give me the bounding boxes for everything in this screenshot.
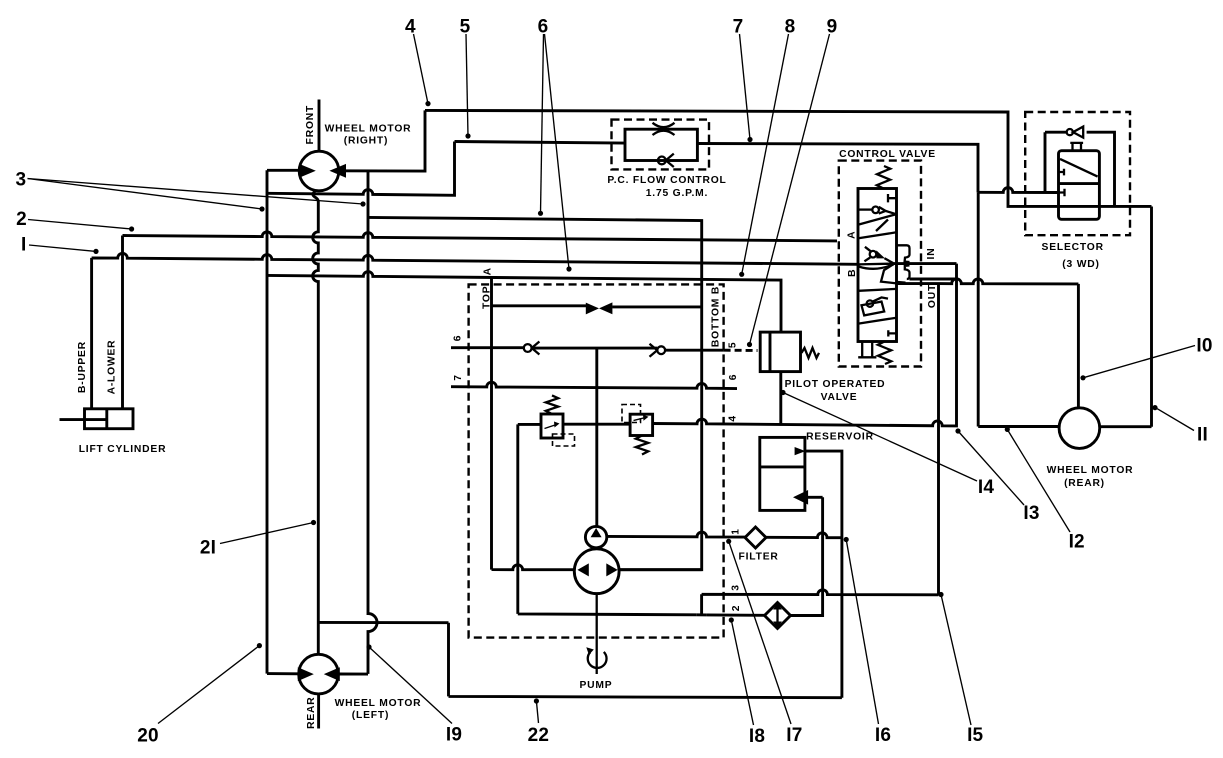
- wire: left motor feed left segment: [267, 672, 299, 675]
- svg-text:I4: I4: [978, 477, 994, 498]
- svg-text:B-UPPER: B-UPPER: [77, 341, 88, 393]
- svg-text:WHEEL MOTOR: WHEEL MOTOR: [335, 698, 422, 709]
- wire: center vertical from line 6 to charge pump: [595, 349, 598, 527]
- wire: right motor equator line left segment: [267, 169, 299, 172]
- p.c. flow control restrictor arcs: [653, 123, 675, 135]
- wire: reservoir upper drain line down to bottom long line: [805, 451, 842, 698]
- svg-text:A: A: [847, 231, 858, 239]
- wire: relief branch vertical and bottom line of pump box: [518, 424, 823, 615]
- svg-text:9: 9: [827, 17, 838, 38]
- svg-text:TOP: TOP: [482, 286, 493, 309]
- filter diamond: [745, 527, 766, 548]
- svg-text:4: 4: [405, 17, 416, 38]
- wire: rear wheel motor line: [978, 425, 1151, 428]
- wire: bottom long case drain line: [449, 623, 842, 698]
- selector top actuator: [1070, 143, 1083, 151]
- relief valve left spring: [546, 395, 558, 414]
- wire: left motor feed right segment: [338, 673, 368, 676]
- svg-text:3: 3: [16, 170, 27, 191]
- reservoir bottom return arrow: [793, 490, 808, 505]
- svg-text:6: 6: [453, 335, 464, 342]
- svg-text:OUT: OUT: [927, 284, 938, 308]
- svg-text:(REAR): (REAR): [1064, 478, 1105, 489]
- relief valve left arrow: [545, 425, 557, 429]
- wire: line 6 inside pump box with check valves: [451, 348, 724, 351]
- svg-text:8: 8: [785, 17, 796, 38]
- selector check valve: [1067, 129, 1073, 135]
- wire: OUT vertical down to line 3: [937, 284, 940, 595]
- svg-text:REAR: REAR: [306, 697, 317, 729]
- svg-text:2: 2: [731, 605, 742, 612]
- wire: OUT line from control valve to rear motor riser with hops: [897, 279, 1079, 284]
- control valve lower divider: [858, 289, 896, 291]
- svg-text:5: 5: [460, 17, 471, 38]
- wire: bus 4 from right trunk to pump box vertical: [368, 217, 702, 569]
- wire: left trunk vertical (front-to-rear line): [266, 170, 269, 673]
- lift cylinder piston: [105, 409, 108, 429]
- relief valve right pilot dashed box: [622, 405, 641, 423]
- pump outward arrows: [577, 563, 588, 576]
- reservoir top outlet arrow: [795, 447, 806, 455]
- svg-text:4: 4: [728, 415, 739, 422]
- control valve out passage slope: [881, 264, 897, 284]
- pump rotation arrow symbol: [588, 652, 607, 668]
- relief valve right arrow: [634, 418, 646, 421]
- wire: x978 vertical down to rear motor line: [977, 192, 980, 426]
- svg-text:I6: I6: [875, 725, 891, 746]
- wheel motor (left) circle: [299, 654, 339, 694]
- wire: line 5 pilot dash-dot segment to pilot operated valve: [724, 349, 758, 352]
- selector diagonal: [1060, 159, 1098, 177]
- svg-text:I0: I0: [1196, 336, 1212, 357]
- pump enclosure dashed box: [469, 284, 724, 637]
- svg-text:3: 3: [731, 584, 742, 591]
- svg-text:A-LOWER: A-LOWER: [107, 340, 118, 395]
- wire: pump drive shaft: [596, 594, 598, 674]
- wheel motor (right) inward arrows: [299, 164, 316, 178]
- svg-text:SELECTOR: SELECTOR: [1042, 242, 1104, 253]
- svg-text:RESERVOIR: RESERVOIR: [806, 432, 874, 443]
- wire: right motor top stub (front axle): [318, 100, 321, 152]
- svg-text:2I: 2I: [200, 538, 216, 559]
- control valve bottom tilted check square: [862, 302, 885, 316]
- charge pump circle: [585, 526, 606, 547]
- svg-text:VALVE: VALVE: [821, 392, 858, 403]
- control valve bottom spring: [878, 342, 891, 365]
- wheel motor (rear) circle: [1059, 408, 1100, 449]
- svg-text:20: 20: [137, 725, 159, 746]
- wire: pilot valve bottom vertical to line 4: [779, 372, 782, 426]
- strainer diamond with two-way arrow: [765, 603, 791, 629]
- svg-text:22: 22: [528, 725, 550, 746]
- svg-text:I3: I3: [1023, 503, 1039, 524]
- svg-text:B: B: [847, 269, 858, 277]
- svg-text:FILTER: FILTER: [739, 552, 779, 563]
- wire: bowtie shutoff line (A port line): [492, 306, 702, 307]
- wire: selector check loop: [1045, 132, 1115, 206]
- bowtie shutoff valve: [586, 303, 599, 315]
- svg-text:A: A: [483, 267, 494, 275]
- svg-text:BOTTOM B: BOTTOM B: [711, 286, 722, 347]
- wire: bus B from lift cylinder to control valve with hops: [92, 253, 859, 409]
- control valve top spring: [877, 166, 890, 189]
- control valve dashed box: [839, 161, 921, 367]
- svg-text:LIFT CYLINDER: LIFT CYLINDER: [79, 444, 167, 455]
- svg-text:I8: I8: [749, 726, 765, 747]
- control valve bottom plunger: [858, 342, 876, 358]
- svg-text:2: 2: [16, 209, 27, 230]
- svg-text:(3 WD): (3 WD): [1062, 259, 1099, 270]
- wire: P.C. flow control line: [455, 142, 979, 193]
- control valve middle section A check and arrow: [870, 251, 877, 258]
- svg-text:(LEFT): (LEFT): [352, 710, 389, 721]
- wire: bus A from lift cylinder to control valve with hops: [123, 232, 838, 409]
- svg-text:I: I: [21, 235, 26, 256]
- svg-text:6: 6: [728, 374, 739, 381]
- p.c. flow control check valve: [658, 157, 666, 165]
- wire: line 4 through relief valves with hops, to IN riser: [518, 264, 957, 426]
- pilot operated valve spring: [802, 348, 820, 358]
- svg-text:7: 7: [733, 17, 744, 38]
- svg-text:7: 7: [453, 374, 464, 381]
- svg-text:I2: I2: [1069, 532, 1085, 553]
- selector dashed box: [1025, 112, 1130, 235]
- wire: reservoir lower port line: [808, 496, 823, 499]
- relief valve left box: [541, 414, 563, 438]
- control valve top section passage diagonals: [858, 214, 896, 238]
- svg-text:FRONT: FRONT: [305, 105, 316, 144]
- wire: charge pump outlet to filter and reservoir drop with hops: [607, 532, 842, 538]
- control valve top T marker: [888, 194, 897, 202]
- svg-text:WHEEL MOTOR: WHEEL MOTOR: [1047, 465, 1134, 476]
- selector divider: [1059, 182, 1100, 185]
- reservoir box: [760, 437, 805, 510]
- check valve on line 6 right: [657, 346, 665, 354]
- relief valve right spring: [636, 436, 648, 455]
- wire: L2 line to selector with hop: [978, 188, 1059, 193]
- p.c. flow control dashed box: [612, 120, 710, 170]
- svg-text:(RIGHT): (RIGHT): [344, 136, 389, 147]
- wire: pump right side line: [619, 568, 701, 571]
- wheel motor (left) inward arrows: [298, 667, 314, 681]
- wire: line 7 with hops over A-vertical and box vertical: [451, 382, 737, 388]
- wire: top bus (line 4) to selector riser: [425, 110, 1152, 206]
- svg-text:PILOT OPERATED: PILOT OPERATED: [785, 379, 886, 390]
- wire: line 3 from pump box to OUT vertical with hop: [702, 590, 939, 615]
- svg-text:I9: I9: [446, 725, 462, 746]
- svg-text:1: 1: [731, 528, 742, 535]
- wire: middle vertical from right wheel motor to left wheel motor (with crossover hops): [313, 190, 319, 654]
- wire: right-edge vertical down to rear wheel motor: [1150, 207, 1153, 427]
- wire: case drain line from middle vertical with trunk hop: [318, 621, 448, 624]
- wire: left motor bottom stub (rear axle): [317, 694, 320, 729]
- svg-text:WHEEL MOTOR: WHEEL MOTOR: [325, 124, 412, 135]
- relief valve left pilot dashed box: [553, 434, 575, 446]
- wire: right motor equator line right segment to riser: [339, 110, 425, 171]
- svg-text:P.C. FLOW CONTROL: P.C. FLOW CONTROL: [607, 175, 726, 186]
- svg-text:1.75 G.P.M.: 1.75 G.P.M.: [646, 188, 708, 199]
- wire: line-3 tee stub on bottom line: [697, 613, 707, 616]
- wire: motor-bottom bus with hop over right trunk: [267, 142, 455, 196]
- pilot operated valve box: [760, 332, 800, 372]
- pump main circle: [574, 549, 619, 594]
- wire: IN channel lines from control valve tab: [894, 264, 957, 279]
- selector internal port markers: [1059, 169, 1065, 197]
- wire: A-line vertical inside pump box to pump left: [492, 278, 575, 569]
- check valve on line 6 left: [524, 344, 532, 352]
- p.c. flow control body rect: [625, 129, 697, 160]
- relief valve right box: [630, 414, 653, 435]
- selector body: [1059, 151, 1100, 220]
- control valve bottom passage diagonal: [858, 318, 896, 324]
- control valve spool tab lower: [897, 265, 910, 282]
- lift cylinder body: [85, 409, 134, 429]
- wire: rear motor top riser from OUT line: [1077, 284, 1080, 408]
- lift cylinder rod: [60, 418, 107, 421]
- control valve spool tab upper: [897, 245, 910, 262]
- charge pump up arrow: [591, 528, 602, 537]
- control valve body: [858, 189, 897, 342]
- svg-text:I7: I7: [786, 725, 802, 746]
- wheel motor (right) circle: [299, 151, 339, 191]
- wire: bottom bus from left trunk to pilot valve riser: [267, 272, 781, 333]
- svg-text:I5: I5: [967, 725, 983, 746]
- control valve bottom T marker: [888, 330, 896, 336]
- svg-text:CONTROL VALVE: CONTROL VALVE: [839, 149, 936, 160]
- svg-text:PUMP: PUMP: [580, 680, 613, 691]
- control valve top section check valve: [859, 208, 872, 210]
- svg-text:5: 5: [728, 342, 739, 349]
- wire: right trunk vertical (with hop over case-drain line): [368, 171, 377, 674]
- svg-text:IN: IN: [926, 248, 937, 260]
- control valve B leaf passage: [859, 264, 895, 269]
- svg-text:II: II: [1197, 425, 1208, 446]
